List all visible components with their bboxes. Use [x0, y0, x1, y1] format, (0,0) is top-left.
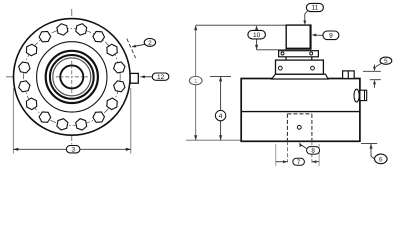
- svg-text:3: 3: [71, 147, 75, 154]
- svg-text:9: 9: [329, 33, 333, 40]
- svg-text:2: 2: [148, 40, 152, 47]
- svg-text:5: 5: [384, 58, 388, 65]
- svg-text:6: 6: [379, 156, 383, 163]
- svg-text:11: 11: [312, 5, 319, 12]
- svg-text:1: 1: [194, 78, 198, 85]
- svg-text:7: 7: [297, 159, 301, 166]
- svg-text:12: 12: [157, 74, 165, 81]
- svg-text:8: 8: [311, 148, 315, 155]
- svg-text:4: 4: [219, 113, 223, 120]
- svg-text:10: 10: [253, 32, 261, 39]
